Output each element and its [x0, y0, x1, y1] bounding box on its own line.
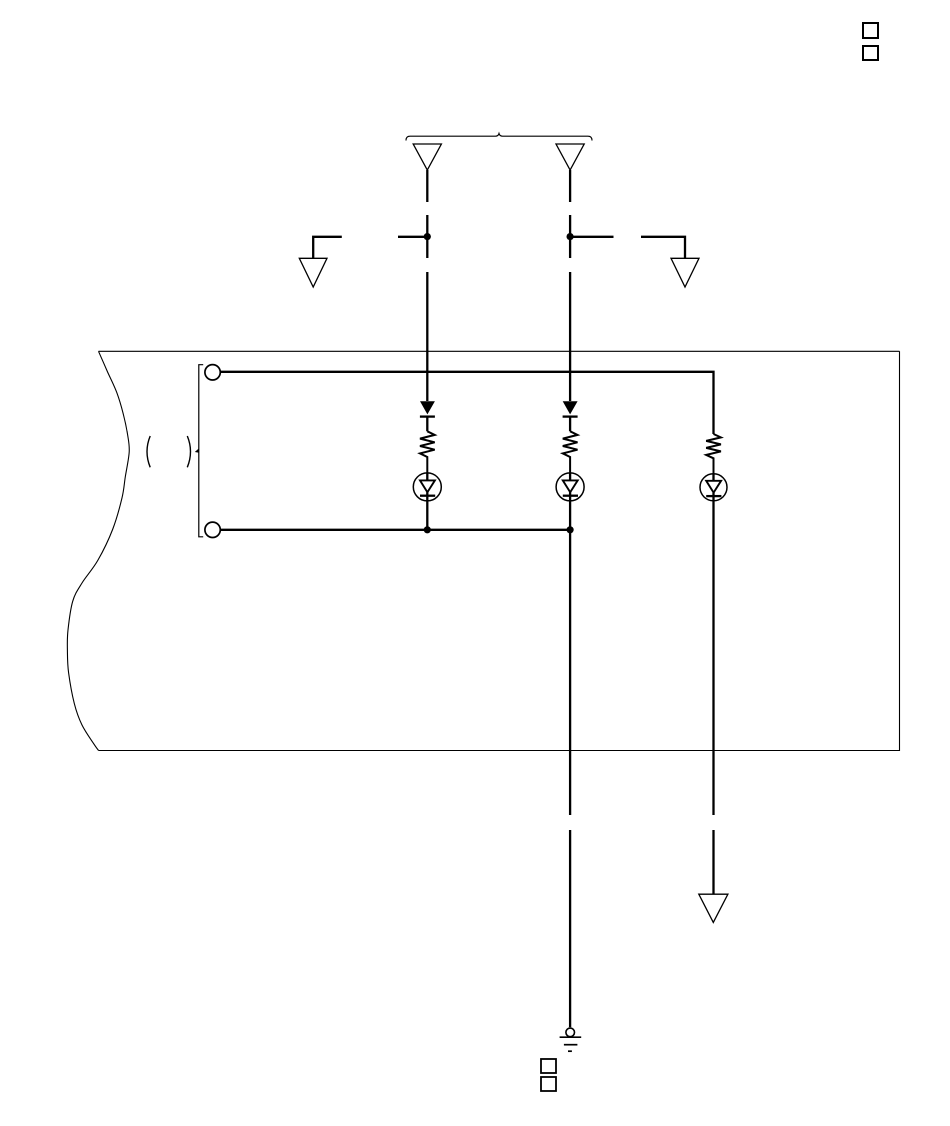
- node: bus junction dot 1: [424, 526, 431, 533]
- connector arrow T5 (to body ground, bottom right): [699, 894, 728, 922]
- resistor R2: [563, 431, 578, 473]
- ground symbol: [560, 1028, 582, 1051]
- node: junction dot left: [424, 233, 431, 240]
- label box (missing glyph) top-right 2: [863, 46, 878, 60]
- wire: dashed vertical from T2: [569, 170, 571, 401]
- node: junction dot right: [567, 233, 574, 240]
- resistor R3: [706, 434, 721, 474]
- label box (missing glyph) bottom 2: [541, 1077, 556, 1091]
- wire: dashed branch to right arrow: [570, 237, 685, 258]
- connector bracket [: [199, 365, 203, 537]
- LED L2: [556, 473, 584, 530]
- label box (missing glyph) bottom 1: [541, 1059, 556, 1073]
- ECU box outline with torn left edge: [99, 351, 900, 750]
- diode D1: [420, 401, 435, 431]
- connector arrow T3 (branch, left): [299, 258, 327, 287]
- wire: from L2 junction down through box, dashed break: [569, 530, 571, 1028]
- LED L3: [700, 474, 727, 501]
- parenthesis ( for hidden label: [147, 436, 150, 467]
- pin circle 1 (top): [205, 365, 220, 380]
- overbrace spanning connectors: [406, 134, 592, 141]
- resistor R1: [420, 431, 435, 473]
- connector arrow T4 (branch, right): [671, 258, 699, 287]
- diode D2: [563, 401, 578, 431]
- wire: top bus from pin 1 to branch 3: [220, 372, 713, 434]
- parenthesis ) for hidden label: [187, 436, 190, 467]
- LED L1: [413, 473, 441, 530]
- connector arrow T2 (from harness, right): [556, 144, 584, 170]
- pin circle 2 (bottom): [205, 522, 220, 537]
- torn (wavy) left edge of box: [67, 351, 129, 750]
- label box (missing glyph) top-right 1: [863, 23, 878, 38]
- connector bracket middle tick: [195, 448, 199, 453]
- connector arrow T1 (from harness, left): [413, 144, 441, 170]
- node: bus junction dot 2: [567, 526, 574, 533]
- wire: dashed vertical from T1: [426, 170, 428, 401]
- wire: bottom bus from pin 2: [220, 529, 570, 531]
- wire: dashed branch to left arrow: [313, 237, 427, 258]
- wire: from L3 down through box, dashed break: [712, 501, 714, 894]
